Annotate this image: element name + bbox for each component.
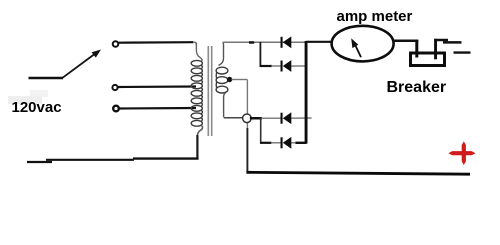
- svg-text:amp meter: amp meter: [337, 8, 413, 25]
- svg-text:Breaker: Breaker: [387, 79, 447, 96]
- svg-text:120vac: 120vac: [12, 99, 62, 116]
